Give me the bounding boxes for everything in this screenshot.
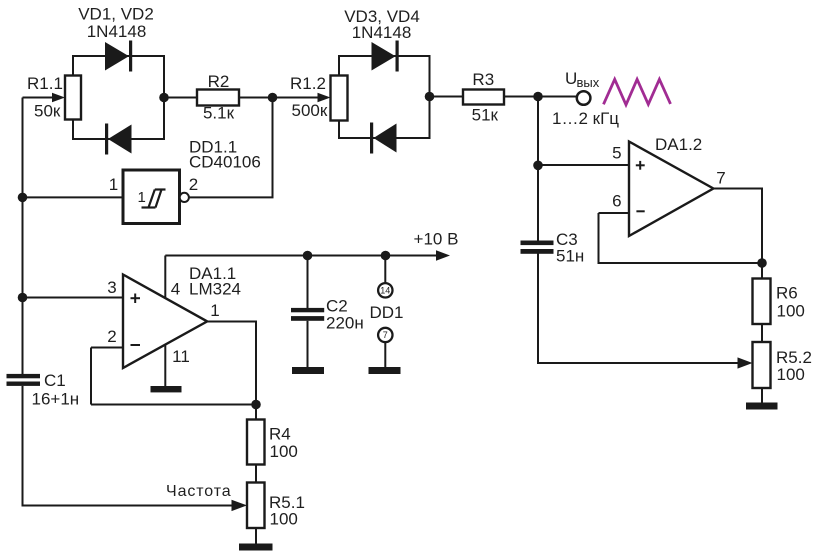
svg-text:500к: 500к	[292, 101, 328, 120]
svg-text:R1.1: R1.1	[27, 74, 63, 93]
svg-text:220н: 220н	[326, 314, 364, 333]
svg-text:7: 7	[716, 169, 725, 188]
svg-text:CD40106: CD40106	[189, 153, 261, 172]
svg-text:1: 1	[210, 301, 219, 320]
svg-text:51н: 51н	[556, 247, 584, 266]
svg-text:DA1.2: DA1.2	[655, 135, 702, 154]
svg-text:Частота: Частота	[166, 483, 232, 500]
svg-text:51к: 51к	[472, 106, 499, 125]
svg-text:вых: вых	[577, 75, 600, 90]
svg-text:5: 5	[612, 144, 621, 163]
svg-text:1N4148: 1N4148	[87, 22, 147, 41]
svg-text:100: 100	[777, 302, 805, 321]
svg-text:1: 1	[109, 175, 118, 194]
svg-text:5.1к: 5.1к	[203, 104, 235, 123]
svg-text:LM324: LM324	[189, 280, 241, 299]
svg-text:R2: R2	[208, 72, 230, 91]
svg-text:6: 6	[612, 191, 621, 210]
svg-text:R6: R6	[776, 284, 798, 303]
svg-text:VD1, VD2: VD1, VD2	[78, 5, 154, 24]
svg-text:4: 4	[171, 280, 180, 299]
svg-text:1N4148: 1N4148	[352, 23, 412, 42]
svg-text:R1.2: R1.2	[290, 74, 326, 93]
svg-text:11: 11	[172, 347, 190, 366]
svg-text:2: 2	[189, 175, 198, 194]
svg-text:14: 14	[380, 286, 390, 296]
svg-text:100: 100	[270, 510, 298, 529]
svg-text:50к: 50к	[34, 102, 61, 121]
svg-text:R4: R4	[269, 425, 291, 444]
svg-text:U: U	[565, 69, 577, 88]
svg-text:2: 2	[107, 327, 116, 346]
svg-text:7: 7	[383, 330, 388, 340]
svg-text:R3: R3	[472, 70, 494, 89]
svg-text:3: 3	[107, 278, 116, 297]
svg-text:100: 100	[777, 365, 805, 384]
svg-text:1: 1	[138, 189, 146, 206]
svg-text:1…2 кГц: 1…2 кГц	[552, 109, 619, 128]
svg-text:DD1: DD1	[370, 303, 404, 322]
svg-text:16+1н: 16+1н	[32, 390, 80, 409]
svg-text:C1: C1	[44, 371, 66, 390]
svg-text:100: 100	[270, 442, 298, 461]
svg-text:+10 В: +10 В	[414, 230, 459, 249]
